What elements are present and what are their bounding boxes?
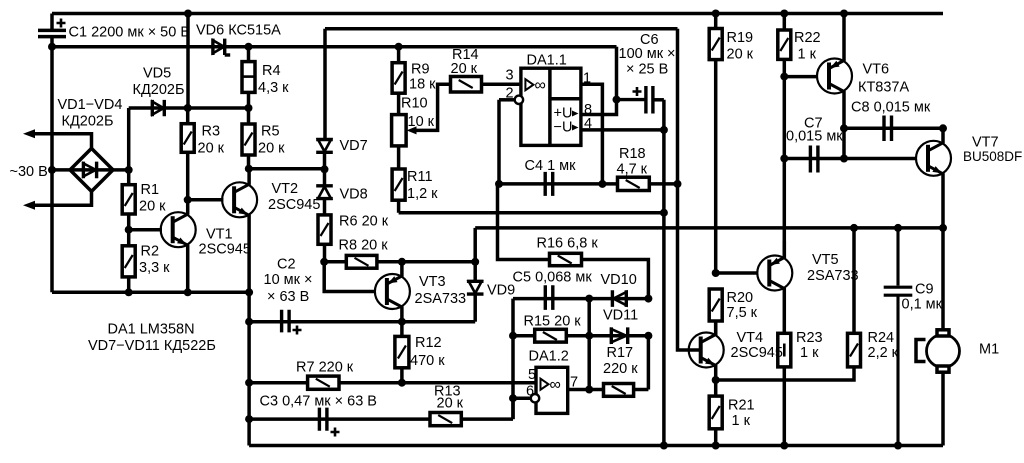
capacitor C5 <box>545 285 553 310</box>
capacitor C6 <box>617 86 664 114</box>
capacitor C7 <box>810 146 818 173</box>
wire left rail <box>50 47 54 293</box>
wire VT5 emitter up / R22 column <box>783 59 787 259</box>
svg-text:R11: R11 <box>407 169 433 185</box>
node R8-VT3 emitter junction <box>398 258 406 266</box>
wire VT6 base <box>784 75 817 79</box>
svg-text:470 к: 470 к <box>410 353 445 369</box>
svg-text:7,5 к: 7,5 к <box>727 305 758 321</box>
transistor VT3 <box>375 262 410 322</box>
node top rail tap <box>184 10 192 18</box>
svg-text:КД202Б: КД202Б <box>133 82 185 98</box>
transistor VT7 <box>916 128 951 330</box>
node VT3 collector - R12 junction <box>398 318 406 326</box>
wire DA1.1 pin8 supply <box>581 100 617 115</box>
capacitor C9 <box>884 228 913 446</box>
node R5-VT2 junction <box>245 165 253 173</box>
op-amp DA1.1 <box>521 68 581 145</box>
svg-text:VD10: VD10 <box>601 272 637 288</box>
node C7 right - VT6 collector junction <box>840 155 848 163</box>
wire C3-R13 line <box>249 398 513 419</box>
svg-text:C3 0,47 мк × 63 В: C3 0,47 мк × 63 В <box>260 394 377 410</box>
svg-text:VT1: VT1 <box>206 227 233 243</box>
svg-text:100 мк ×: 100 мк × <box>619 46 676 62</box>
wire emitter column down to bottom rail <box>247 292 251 445</box>
resistor R2 <box>122 230 135 293</box>
node pin4-rail1 junction <box>660 126 668 134</box>
wire pin2 column down to C4 <box>497 100 501 184</box>
svg-text:VD6 КС515А: VD6 КС515А <box>196 23 281 39</box>
node VT1 emitter bottom <box>184 288 192 296</box>
svg-text:C9: C9 <box>915 282 934 298</box>
wire C7 - VT7 base line <box>784 157 916 161</box>
svg-text:R22: R22 <box>794 30 821 46</box>
svg-text:VD7−VD11 КД522Б: VD7−VD11 КД522Б <box>88 338 216 354</box>
wire C2 line <box>249 320 475 324</box>
wire R11 to rail1 <box>399 211 664 215</box>
diode VD10 <box>612 290 626 307</box>
svg-text:R10: R10 <box>401 96 428 112</box>
diode VD9 <box>467 228 484 322</box>
resistor R16 <box>550 253 649 298</box>
svg-text:R19: R19 <box>727 30 754 46</box>
capacitor C1 <box>38 14 66 47</box>
node C2 left junction <box>245 318 253 326</box>
node C4 left junction <box>495 180 503 188</box>
resistor R24 <box>848 228 861 367</box>
svg-text:R21: R21 <box>728 398 755 414</box>
diode VD5 <box>129 100 249 116</box>
svg-text:R20: R20 <box>727 290 754 306</box>
node R8 wire - VD9 junction <box>471 258 479 266</box>
svg-text:−U: −U <box>554 120 573 136</box>
bridge rectifier VD1-VD4 <box>70 148 113 191</box>
svg-text:4,7 к: 4,7 к <box>617 162 648 178</box>
node R15 right junction <box>585 332 593 340</box>
svg-text:R24: R24 <box>868 330 895 346</box>
wire top rail <box>52 12 943 16</box>
svg-text:R12: R12 <box>415 335 442 351</box>
svg-text:VT4: VT4 <box>737 330 764 346</box>
wire DA1.2 pin6 input <box>513 396 531 400</box>
svg-text:2SA733: 2SA733 <box>807 268 859 284</box>
wire C8 line <box>844 128 943 158</box>
wire VD7 column <box>323 29 327 140</box>
svg-text:КТ837А: КТ837А <box>858 80 909 96</box>
svg-text:10 мк ×: 10 мк × <box>264 272 313 288</box>
svg-text:VD5: VD5 <box>143 66 171 82</box>
wire VT2 collector to VD7-VD8 node <box>249 167 325 171</box>
svg-text:VT5: VT5 <box>812 252 839 268</box>
transistor VT2 <box>222 169 257 293</box>
wire DA1.2 pin7 output <box>568 388 604 392</box>
node C8 right - VT7 collector junction <box>939 124 947 132</box>
capacitor C4 <box>545 172 553 196</box>
node R2 bottom <box>125 288 133 296</box>
node DA1.1 pin2 inverting circle <box>515 96 523 104</box>
svg-text:2SA733: 2SA733 <box>415 291 467 307</box>
svg-text:VD8: VD8 <box>340 187 368 203</box>
node R9 top junction <box>395 43 403 51</box>
resistor R18 <box>618 177 650 190</box>
node R18 right on rail2 <box>674 180 682 188</box>
svg-text:× 63 В: × 63 В <box>267 289 309 305</box>
node C9 bottom junction <box>894 442 902 450</box>
wire second rail from C1 to C6 drop <box>52 47 617 100</box>
svg-text:VD9: VD9 <box>487 283 515 299</box>
node C1 bottom junction <box>48 43 56 51</box>
resistor R5 <box>242 108 255 169</box>
wire AC input arrow top <box>23 129 92 148</box>
node wire A right end <box>245 288 253 296</box>
svg-text:R3: R3 <box>202 124 221 140</box>
resistor R19 <box>709 14 722 274</box>
wire bridge left vertex to rail <box>52 168 70 172</box>
node R22 top rail junction <box>780 10 788 18</box>
node VD5-R4 junction <box>245 104 253 112</box>
svg-text:4,3 к: 4,3 к <box>258 80 289 96</box>
capacitor C2 <box>282 310 302 335</box>
svg-text:КД202Б: КД202Б <box>62 114 114 130</box>
svg-text:1 к: 1 к <box>798 47 817 63</box>
svg-text:VD1−VD4: VD1−VD4 <box>58 97 123 113</box>
svg-text:VT3: VT3 <box>419 274 446 290</box>
svg-text:R6 20 к: R6 20 к <box>339 214 389 230</box>
op-amp DA1.2 <box>536 367 568 413</box>
wire VT2 base <box>188 198 224 202</box>
node VT6 collector - C8 junction <box>840 124 848 132</box>
resistor R14 <box>451 77 520 93</box>
svg-text:20 к: 20 к <box>727 47 754 63</box>
wire rail2 <box>678 29 689 350</box>
svg-text:18 к: 18 к <box>409 77 436 93</box>
node VD10 right junction <box>644 295 652 303</box>
svg-text:1,2 к: 1,2 к <box>407 186 438 202</box>
wire bottom rail <box>249 444 943 448</box>
node VD11 right junction <box>644 332 652 340</box>
svg-text:R16 6,8 к: R16 6,8 к <box>537 236 599 252</box>
resistor R3 <box>181 108 194 200</box>
wire B long middle bus <box>475 226 943 230</box>
node R21 bottom junction <box>712 442 720 450</box>
node VD6-R4 top junction <box>245 43 253 51</box>
transistor VT6 <box>817 14 852 129</box>
node DA1.2 pin6 inverting circle <box>531 394 539 402</box>
resistor R8 <box>324 255 475 268</box>
transistor VT1 <box>161 200 196 292</box>
svg-text:3: 3 <box>506 68 514 84</box>
resistor R21 <box>709 380 722 446</box>
svg-text:R9: R9 <box>411 62 430 78</box>
node C9 top junction <box>894 224 902 232</box>
svg-text:DA1.2: DA1.2 <box>529 349 569 365</box>
svg-text:5: 5 <box>528 367 536 383</box>
resistor R9 <box>392 47 405 115</box>
svg-text:20 к: 20 к <box>198 141 225 157</box>
node bridge-rail junction <box>48 166 56 174</box>
svg-text:R2: R2 <box>141 244 160 260</box>
node R23 bottom junction <box>780 442 788 450</box>
diode VD11 <box>611 327 627 344</box>
svg-text:4: 4 <box>584 116 592 132</box>
node C3 left junction <box>245 415 253 423</box>
svg-text:2SC945: 2SC945 <box>199 242 251 258</box>
svg-text:1: 1 <box>583 71 591 87</box>
svg-text:VT2: VT2 <box>272 181 299 197</box>
wire upper middle rail <box>325 27 678 31</box>
svg-text:2: 2 <box>506 86 514 102</box>
potentiometer R10 <box>392 84 451 146</box>
transistor VT4 <box>689 321 724 380</box>
wire C4-R18 line <box>498 182 678 186</box>
svg-text:6: 6 <box>526 384 534 400</box>
svg-text:∞: ∞ <box>535 77 546 94</box>
wire DA1.1 pin4 supply <box>581 128 664 132</box>
wire DA1.1 pin2 input <box>499 98 515 102</box>
svg-text:∞: ∞ <box>550 377 561 394</box>
svg-text:C1 2200 мк × 50 В: C1 2200 мк × 50 В <box>69 25 191 41</box>
svg-text:2,2 к: 2,2 к <box>868 345 899 361</box>
node VT6 base junction <box>780 73 788 81</box>
svg-text:R4: R4 <box>262 63 281 79</box>
wire C5-VD10 line <box>513 299 648 420</box>
wire bridge output up to VD5 line <box>127 108 131 170</box>
resistor R7 <box>308 376 339 389</box>
svg-text:7: 7 <box>570 375 578 391</box>
capacitor C3 <box>319 408 339 437</box>
resistor R15 <box>535 329 567 342</box>
diode VD8 <box>316 169 333 215</box>
svg-text:2SC945: 2SC945 <box>731 345 783 361</box>
svg-text:20 к: 20 к <box>437 396 464 412</box>
node R13-pin6 junction <box>509 394 517 402</box>
wire R7 line to DA1.2 pin5 <box>249 381 536 385</box>
node R24 top junction <box>850 224 858 232</box>
svg-text:C5 0,068 мк: C5 0,068 мк <box>513 270 593 286</box>
svg-text:VD7: VD7 <box>340 138 368 154</box>
svg-text:R7 220 к: R7 220 к <box>296 360 354 376</box>
motor M1 <box>916 330 960 446</box>
wire AC input arrow bottom <box>23 191 92 209</box>
wire bridge right vertex <box>113 168 129 172</box>
node VT6 emitter top rail junction <box>840 10 848 18</box>
wire VT4 emitter to R24 <box>716 367 854 380</box>
wire VT5 base <box>716 271 758 275</box>
svg-text:20 к: 20 к <box>258 141 285 157</box>
node VD7-VD8 junction <box>321 165 329 173</box>
svg-text:C8 0,015 мк: C8 0,015 мк <box>851 100 931 116</box>
wire top rail to VD5 line <box>186 14 190 109</box>
svg-text:R23: R23 <box>796 330 823 346</box>
diode VD7 <box>316 140 333 170</box>
svg-text:20 к: 20 к <box>139 199 166 215</box>
resistor R4 <box>242 47 255 108</box>
diode VD6 zener <box>213 39 230 55</box>
svg-text:0,015 мк: 0,015 мк <box>786 129 843 145</box>
wire C5 column (pin1 feedback) <box>587 299 591 390</box>
node VD5-R3 junction <box>184 104 192 112</box>
node VT5 base junction <box>712 269 720 277</box>
svg-text:R1: R1 <box>141 182 160 198</box>
svg-text:R15 20 к: R15 20 к <box>524 314 582 330</box>
svg-text:~30 В: ~30 В <box>10 164 48 180</box>
node C6 left junction <box>613 96 621 104</box>
wire VT1 base <box>129 228 162 232</box>
resistor R11 <box>392 146 405 213</box>
svg-text:1 к: 1 к <box>800 345 819 361</box>
node R15 left junction <box>509 332 517 340</box>
node R19 top rail junction <box>712 10 720 18</box>
node C7 left junction <box>780 155 788 163</box>
node bridge right junction <box>125 166 133 174</box>
wire R16 line <box>498 184 550 260</box>
svg-text:0,1 мк: 0,1 мк <box>902 297 943 313</box>
wire R6 node down to VT3 base <box>324 262 375 292</box>
resistor R17 <box>604 336 649 397</box>
svg-text:BU508DF: BU508DF <box>963 149 1022 164</box>
capacitor C8 <box>884 116 892 142</box>
node pin7 junction <box>585 386 593 394</box>
svg-text:VD11: VD11 <box>603 308 638 324</box>
svg-text:DA1.1: DA1.1 <box>527 53 567 69</box>
node R12 bottom junction <box>398 379 406 387</box>
svg-text:M1: M1 <box>979 342 999 358</box>
resistor R23 <box>778 333 791 445</box>
resistor R1 <box>122 170 135 230</box>
svg-text:3,3 к: 3,3 к <box>139 260 170 276</box>
wire R15-VD11 line <box>513 334 648 338</box>
wire A ground bus <box>52 291 249 295</box>
resistor R20 <box>709 289 722 336</box>
svg-text:20 к: 20 к <box>451 61 478 77</box>
node VT4 emitter junction <box>712 376 720 384</box>
node R6-R8 junction <box>320 258 328 266</box>
node wire B right end <box>939 224 947 232</box>
svg-text:1 к: 1 к <box>732 413 751 429</box>
node C5 right junction <box>585 295 593 303</box>
node pin1-C4-R18 junction <box>598 180 606 188</box>
transistor VT5 <box>757 241 792 333</box>
node R7 left junction <box>245 379 253 387</box>
svg-text:C2: C2 <box>277 257 296 273</box>
node R11-rail1 junction <box>660 209 668 217</box>
resistor R12 <box>395 322 409 383</box>
svg-text:× 25 В: × 25 В <box>626 62 668 78</box>
svg-text:R8 20 к: R8 20 к <box>339 238 389 254</box>
svg-text:C4 1 мк: C4 1 мк <box>525 158 577 174</box>
node R3-VT1-VT2 junction <box>184 196 192 204</box>
svg-text:2SC945: 2SC945 <box>268 197 320 213</box>
svg-text:220 к: 220 к <box>603 361 638 377</box>
wire rail1 (C6 right column) <box>662 100 666 446</box>
resistor R13 <box>430 413 461 426</box>
resistor R22 <box>778 14 791 60</box>
node rail1 bottom junction <box>660 442 668 450</box>
svg-text:DA1 LM358N: DA1 LM358N <box>108 322 195 338</box>
svg-text:VT6: VT6 <box>863 62 890 78</box>
svg-text:R18: R18 <box>619 146 646 162</box>
node R1-R2 junction <box>125 226 133 234</box>
resistor R6 <box>318 215 331 262</box>
svg-text:R17: R17 <box>607 345 634 361</box>
svg-text:R5: R5 <box>261 124 280 140</box>
wire DA1.1 pin1 output <box>581 84 603 184</box>
svg-text:10 к: 10 к <box>408 114 435 130</box>
